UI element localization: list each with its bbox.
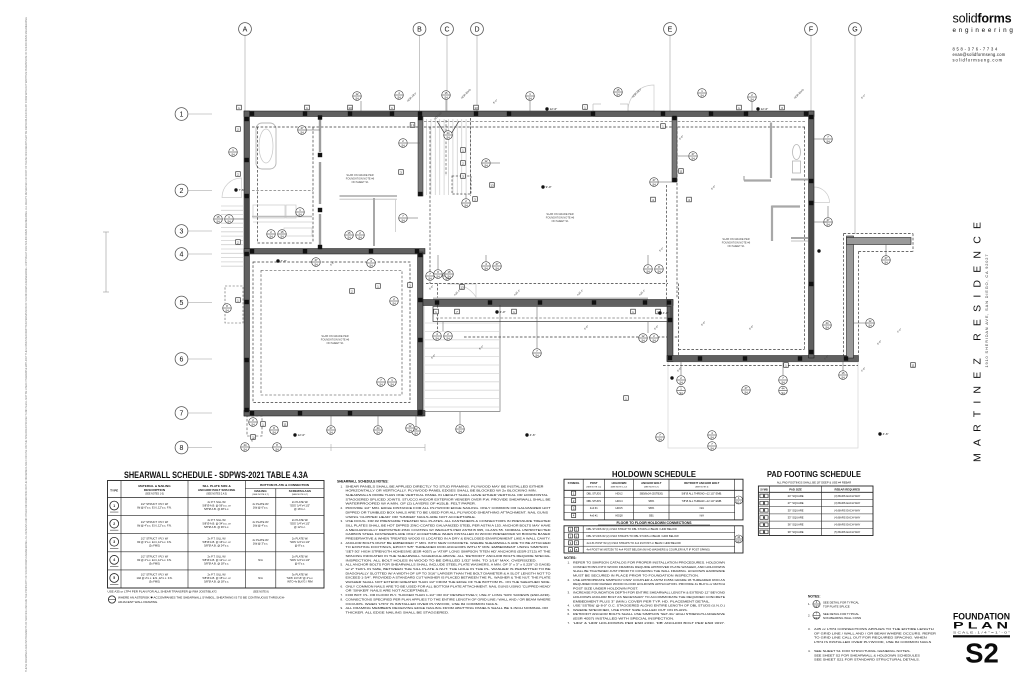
svg-text:S4: S4 [436, 274, 440, 278]
svg-text:47: 47 [315, 258, 318, 262]
svg-text:DBL STUDS: DBL STUDS [587, 491, 602, 495]
svg-text:SLAB ON GRADE PER: SLAB ON GRADE PER [321, 334, 348, 338]
svg-text:47: 47 [885, 256, 888, 260]
svg-text:D: D [474, 27, 479, 34]
svg-text:4: 4 [180, 252, 184, 259]
svg-text:SLAB ON GRADE PER: SLAB ON GRADE PER [346, 173, 373, 177]
svg-text:evan@solidformseng.com: evan@solidformseng.com [953, 52, 1006, 57]
svg-text:44: 44 [459, 425, 462, 429]
dashed inset above bottom-right wall [679, 349, 805, 351]
svg-text:S4: S4 [280, 234, 284, 238]
sofa outline left room [253, 205, 312, 236]
svg-text:11: 11 [283, 422, 286, 426]
svg-text:SYMB: SYMB [760, 487, 768, 491]
svg-text:2x PLATE W/: 2x PLATE W/ [253, 502, 269, 506]
svg-text:S4: S4 [641, 338, 645, 342]
svg-text:FOUNDATION NOTE #6: FOUNDATION NOTE #6 [546, 215, 575, 219]
svg-text:9'-6": 9'-6" [678, 134, 685, 141]
dashed stoop below lower-left wall [247, 416, 262, 436]
svg-text:30" SQUARE: 30" SQUARE [788, 508, 804, 512]
svg-text:solidforms: solidforms [953, 12, 1012, 26]
svg-text:6: 6 [180, 357, 184, 364]
svg-text:8'-0": 8'-0" [492, 98, 499, 105]
svg-text:THESE DRAWINGS ARE INSTRUMENTS: THESE DRAWINGS ARE INSTRUMENTS OF SERVIC… [24, 17, 28, 672]
svg-text:SYMBOL: SYMBOL [568, 481, 580, 485]
left entry door arc [222, 178, 242, 198]
svg-text:S4: S4 [658, 437, 662, 441]
svg-text:LTP4 IS INSTALLED OVER PLYWOOD: LTP4 IS INSTALLED OVER PLYWOOD, USE 8d C… [814, 640, 931, 644]
dashed vertical at patio right [678, 284, 680, 359]
svg-text:1: 1 [113, 504, 115, 508]
svg-text:7'-6": 7'-6" [239, 188, 245, 192]
svg-text:S4: S4 [652, 338, 656, 342]
svg-text:S4: S4 [392, 301, 396, 305]
dashed pair flanking interior wall at E [667, 127, 678, 299]
svg-text:9'-6": 9'-6" [676, 366, 683, 373]
svg-text:S4: S4 [435, 336, 439, 340]
svg-text:8'-0": 8'-0" [478, 344, 485, 351]
wall type square tags [236, 105, 916, 440]
svg-text:P3: P3 [763, 510, 765, 512]
wood deck area with board lines [424, 302, 500, 412]
svg-text:16d @ 3"o.c.: 16d @ 3"o.c. [253, 542, 269, 546]
svg-text:12: 12 [485, 159, 488, 163]
svg-text:3: 3 [113, 540, 115, 544]
svg-text:SHEARWALL SCHEDULE - SDPWS-202: SHEARWALL SCHEDULE - SDPWS-2021 TABLE 4.… [124, 470, 308, 480]
dimension dots with labels [234, 107, 888, 437]
svg-text:11: 11 [911, 363, 914, 367]
exterior wall at grid 4 [244, 249, 425, 255]
grid row bubble 6 [175, 353, 212, 366]
svg-text:ANCHOR BOLT SPACING: ANCHOR BOLT SPACING [198, 488, 236, 492]
bottom wall of right section (grid 6) [667, 356, 859, 362]
svg-text:2x P.T. SILL W/: 2x P.T. SILL W/ [208, 536, 226, 540]
shear panel segments on top wall [350, 111, 746, 117]
svg-text:5/8"Ø A.B. @ 12"o.c. or: 5/8"Ø A.B. @ 12"o.c. or [203, 558, 231, 562]
svg-text:4.: 4. [341, 541, 344, 545]
svg-text:DBL STUDS W/ (1) CS16 STRAP TO: DBL STUDS W/ (1) CS16 STRAP TO DBL STUDS… [587, 527, 678, 531]
svg-text:(SEE NOTE 6,7): (SEE NOTE 6,7) [292, 494, 308, 496]
exterior wall top (grid 1) [244, 111, 814, 117]
svg-text:1.: 1. [341, 484, 344, 488]
sheet title FOUNDATION PLAN [953, 612, 1010, 638]
svg-text:2x PLATE W/: 2x PLATE W/ [292, 554, 308, 558]
svg-text:S4: S4 [231, 152, 235, 156]
svg-text:47: 47 [496, 262, 499, 266]
dashed inset inside right wall [804, 127, 806, 350]
svg-text:S4: S4 [826, 139, 830, 143]
svg-text:(SEE NOTES 1-5): (SEE NOTES 1-5) [145, 493, 164, 495]
svg-text:15: 15 [281, 230, 284, 234]
entry door arc right wall [814, 187, 830, 203]
svg-text:(3) BARS EACH WAY: (3) BARS EACH WAY [834, 501, 860, 505]
svg-text:G: G [852, 27, 857, 34]
svg-text:SB1: SB1 [649, 514, 654, 518]
slab on grade note labels [346, 173, 375, 184]
svg-text:ON SHEET S1: ON SHEET S1 [351, 180, 369, 184]
deck door arc [448, 284, 477, 297]
svg-text:1/2" STRUCT I PLY W/: 1/2" STRUCT I PLY W/ [141, 572, 169, 576]
svg-text:8: 8 [180, 445, 184, 452]
dashed line just below top wall [424, 121, 806, 123]
dashed offsets around wing wall [844, 234, 914, 359]
svg-text:S4: S4 [710, 435, 714, 439]
stair header V callout [437, 121, 459, 139]
svg-text:(SEE NOTE 6,7): (SEE NOTE 6,7) [644, 486, 659, 488]
svg-text:9'-0": 9'-0" [860, 93, 867, 100]
svg-text:HDR Blk'G: HDR Blk'G [460, 88, 472, 100]
svg-text:44: 44 [737, 535, 740, 539]
door arc top wall near E [628, 85, 654, 111]
svg-text:9.: 9. [341, 606, 344, 610]
svg-text:1910 SHERIDAN AVE, SAN DIEGO,: 1910 SHERIDAN AVE, SAN DIEGO, CA 92027 [984, 255, 989, 368]
svg-text:A35 4': A35 4' [576, 288, 585, 297]
svg-text:4x4 POST W/ MST236 TO 4x4 POST: 4x4 POST W/ MST236 TO 4x4 POST BELOW (W/… [587, 548, 710, 552]
svg-text:N/A: N/A [258, 558, 263, 562]
svg-text:3: 3 [180, 229, 184, 236]
svg-text:9'-6": 9'-6" [700, 320, 707, 327]
svg-text:2.: 2. [568, 578, 571, 582]
svg-text:S4: S4 [397, 95, 401, 99]
svg-text:S C A L E : 1 / 4 " = 1 ' -: S C A L E : 1 / 4 " = 1 ' - 0 " [953, 631, 1010, 635]
svg-text:'SDS' 1/4"x4 1/2": 'SDS' 1/4"x4 1/2" [290, 558, 310, 562]
exterior wall left (grid A) [244, 111, 250, 416]
svg-text:NOTES:: NOTES: [564, 556, 576, 560]
svg-text:5/8"Ø A.B. @ 18"o.c.: 5/8"Ø A.B. @ 18"o.c. [204, 579, 229, 583]
shear panel segments on left wall [244, 197, 250, 410]
svg-text:INTO 4x BLK'G / RIM: INTO 4x BLK'G / RIM [287, 579, 313, 583]
svg-text:9'-0": 9'-0" [546, 185, 552, 189]
svg-text:8d @ 6"o.c. E.N.,12"o.c. F.N.: 8d @ 6"o.c. E.N.,12"o.c. F.N. [137, 505, 172, 509]
svg-text:5/8"Ø A.B. @ 48"o.c.: 5/8"Ø A.B. @ 48"o.c. [204, 507, 229, 511]
svg-text:12'-6": 12'-6" [550, 107, 558, 111]
svg-text:HDU5: HDU5 [615, 506, 623, 510]
svg-text:15: 15 [217, 215, 220, 219]
grid column bubble F [805, 23, 818, 111]
grid column bubble C [441, 23, 454, 111]
svg-text:27" SQUARE: 27" SQUARE [788, 501, 804, 505]
svg-text:HDQ8: HDQ8 [615, 514, 623, 518]
svg-text:P6: P6 [763, 532, 765, 534]
svg-text:47: 47 [745, 386, 748, 390]
dashed line below covered patio [464, 336, 679, 338]
svg-text:5/8"Ø A.B. @ 36"o.c.: 5/8"Ø A.B. @ 36"o.c. [204, 525, 229, 529]
svg-text:2x P.T. SILL W/: 2x P.T. SILL W/ [208, 500, 226, 504]
svg-text:(3x FMG): (3x FMG) [149, 579, 160, 583]
svg-text:9'-6": 9'-6" [583, 324, 590, 331]
svg-text:HOLDOWN: HOLDOWN [612, 481, 627, 485]
svg-text:2x PLATE W/: 2x PLATE W/ [292, 500, 308, 504]
svg-text:5/8"Ø A.B. @ 34"o.c. or: 5/8"Ø A.B. @ 34"o.c. or [203, 522, 231, 526]
svg-text:15: 15 [448, 270, 451, 274]
svg-text:47: 47 [653, 178, 656, 182]
holdown schedule table [564, 479, 743, 520]
svg-text:REBAR REQUIRED: REBAR REQUIRED [835, 487, 861, 491]
svg-text:(4) BARS EACH WAY: (4) BARS EACH WAY [834, 523, 860, 527]
svg-text:S4: S4 [379, 382, 383, 386]
svg-text:2.: 2. [341, 506, 344, 510]
svg-text:'SDS' 1/4"x4 1/2": 'SDS' 1/4"x4 1/2" [290, 540, 310, 544]
stair right edge dashed [470, 118, 472, 196]
svg-text:13: 13 [490, 183, 494, 187]
svg-text:N/A: N/A [700, 506, 705, 510]
grid row bubble 7 [175, 407, 212, 420]
svg-text:S4: S4 [868, 323, 872, 327]
svg-text:5/8"Ø ALL THREAD +12 1/2" EMB.: 5/8"Ø ALL THREAD +12 1/2" EMB. [682, 491, 723, 495]
svg-text:(SEE NOTE 6,7): (SEE NOTE 6,7) [252, 494, 268, 496]
svg-text:47: 47 [827, 218, 830, 222]
svg-text:9'-6": 9'-6" [430, 353, 437, 360]
svg-text:S4: S4 [825, 325, 829, 329]
svg-text:S4: S4 [616, 92, 620, 96]
svg-text:ON SHEET S1: ON SHEET S1 [551, 219, 569, 223]
dashed footing line inside left wall upper [257, 127, 259, 243]
svg-text:16d @ 4"o.c.: 16d @ 4"o.c. [253, 523, 269, 527]
grid row bubble 2 [175, 184, 212, 197]
svg-text:S4: S4 [347, 235, 351, 239]
svg-text:DET: DET [814, 616, 820, 620]
svg-text:(5) BARS EACH WAY: (5) BARS EACH WAY [834, 530, 860, 534]
dashed footing line inside top wall [252, 126, 805, 128]
svg-text:'SDS' 1/4"x4 1/2": 'SDS' 1/4"x4 1/2" [290, 522, 310, 526]
faint patio slab outline lower right [668, 362, 858, 448]
dashed inset lower-left room [253, 262, 410, 403]
svg-text:S4: S4 [300, 130, 304, 134]
svg-text:1.: 1. [808, 602, 811, 606]
dashed inset right side of upper-left room [312, 127, 314, 243]
svg-text:2.: 2. [808, 614, 811, 618]
svg-text:B: B [417, 27, 422, 34]
counter line left room [252, 216, 312, 218]
svg-text:'SDS' 1/4"x6" @ 4"o.c.: 'SDS' 1/4"x6" @ 4"o.c. [287, 576, 314, 580]
svg-text:2x PLATE W/: 2x PLATE W/ [292, 536, 308, 540]
lower right closet walls [772, 206, 808, 242]
svg-text:4'-0": 4'-0" [663, 311, 669, 315]
svg-text:NAILING: NAILING [254, 489, 267, 493]
svg-text:2x PLATE W/: 2x PLATE W/ [253, 538, 269, 542]
porch wing wall vertical (grid G) [847, 236, 854, 358]
svg-text:9'-6": 9'-6" [653, 324, 660, 331]
svg-text:(3) BARS EACH WAY: (3) BARS EACH WAY [834, 494, 860, 498]
svg-text:S4: S4 [528, 96, 532, 100]
svg-text:P5: P5 [763, 525, 765, 527]
svg-text:S4: S4 [781, 380, 785, 384]
floor to floor holdown connections table [564, 521, 743, 553]
grid column bubble A [239, 23, 252, 111]
svg-text:S4: S4 [446, 135, 450, 139]
svg-text:'SDS' 1/4"x4 1/2": 'SDS' 1/4"x4 1/2" [290, 504, 310, 508]
svg-text:7: 7 [180, 411, 184, 418]
svg-text:4'-0": 4'-0" [896, 327, 903, 334]
svg-text:4'-0": 4'-0" [500, 310, 506, 314]
svg-text:39" SQUARE: 39" SQUARE [788, 530, 804, 534]
svg-text:TYPE: TYPE [110, 489, 118, 493]
svg-text:12'-0": 12'-0" [298, 433, 306, 437]
svg-text:THICKER. ALL EDGE NAILING SHA: THICKER. ALL EDGE NAILING SHALL BE STAGG… [346, 610, 450, 614]
grid column bubble B [413, 23, 426, 111]
svg-text:S4: S4 [408, 428, 412, 432]
svg-text:2x P.T. SILL W/: 2x P.T. SILL W/ [208, 554, 226, 558]
svg-text:engineering: engineering [953, 27, 1016, 34]
svg-text:SB%: SB% [648, 506, 654, 510]
svg-text:@ 12"o.c.: @ 12"o.c. [294, 525, 306, 529]
svg-text:13: 13 [348, 106, 352, 110]
svg-text:12'-6": 12'-6" [761, 107, 769, 111]
svg-text:(SEE NOTES 2,4,5): (SEE NOTES 2,4,5) [206, 493, 227, 495]
svg-text:8.: 8. [341, 597, 344, 601]
svg-text:S4: S4 [329, 430, 333, 434]
grid row bubble 3 [175, 225, 212, 238]
inner dashed inset lower-left room [261, 271, 402, 396]
svg-text:ON SHEET S1: ON SHEET S1 [326, 341, 344, 345]
grid column bubble E [664, 23, 677, 111]
shear panel on right wall [809, 203, 815, 284]
svg-text:HDU4: HDU4 [615, 499, 623, 503]
svg-text:ALL PAD FOOTINGS SHALL BE 18": ALL PAD FOOTINGS SHALL BE 18" DEEP & USE… [777, 480, 851, 484]
svg-text:E: E [668, 27, 673, 34]
svg-text:(2x FMG): (2x FMG) [149, 543, 160, 547]
stair strap squares [461, 148, 466, 179]
svg-text:5: 5 [113, 576, 115, 580]
svg-text:44: 44 [244, 443, 247, 447]
svg-text:7/8"Ø ALL THREAD +12 1/2" EMB.: 7/8"Ø ALL THREAD +12 1/2" EMB. [682, 499, 723, 503]
svg-text:1: 1 [180, 112, 184, 119]
svg-text:'HD2' & 'HD9' HOLDOWNS PER ESR: 'HD2' & 'HD9' HOLDOWNS PER ESR 2330. 'DB… [573, 621, 725, 625]
svg-text:HOLDOWN SCHEDULE: HOLDOWN SCHEDULE [612, 469, 696, 479]
interior shear wall at grid E upper [672, 117, 677, 182]
svg-text:DESCRIPTION: DESCRIPTION [144, 488, 166, 492]
svg-text:S4: S4 [314, 262, 318, 266]
bathtub upper-left room [256, 123, 276, 169]
svg-text:S4: S4 [484, 266, 488, 270]
svg-text:5/8"Ø A.B. @ 16"o.c. or: 5/8"Ø A.B. @ 16"o.c. or [203, 540, 231, 544]
svg-text:solidformseng.com: solidformseng.com [953, 57, 1004, 62]
svg-text:S4: S4 [298, 212, 302, 216]
svg-text:5/8"Ø A.B. @ 15"o.c. or: 5/8"Ø A.B. @ 15"o.c. or [203, 576, 231, 580]
svg-text:(4) BARS EACH WAY: (4) BARS EACH WAY [834, 508, 860, 512]
svg-text:P1: P1 [763, 496, 765, 498]
svg-text:4x6 #1: 4x6 #1 [590, 514, 598, 518]
svg-text:A35 4': A35 4' [638, 288, 647, 297]
kitchen island walls [340, 196, 398, 246]
svg-text:16d @ 6"o.c.: 16d @ 6"o.c. [253, 505, 269, 509]
svg-text:@ 8"o.c.: @ 8"o.c. [295, 543, 306, 547]
svg-text:TOP PLATE SPLICE: TOP PLATE SPLICE [823, 605, 850, 609]
dashed inset bottom of upper-left room [258, 242, 314, 244]
svg-text:4: 4 [113, 558, 115, 562]
svg-text:2x PLATE W/: 2x PLATE W/ [253, 520, 269, 524]
grid column bubble G [849, 23, 862, 234]
svg-text:S4: S4 [841, 375, 845, 379]
svg-text:S4: S4 [744, 390, 748, 394]
svg-text:F: F [809, 27, 813, 34]
svg-text:(SEE NOTE 1,2,7): (SEE NOTE 1,2,7) [611, 486, 628, 488]
svg-text:5.: 5. [341, 563, 344, 567]
svg-text:SEE SHEET S21 FOR STANDARD STR: SEE SHEET S21 FOR STANDARD STRUCTURAL DE… [814, 658, 920, 662]
svg-text:DBL STUDS W/ (2) CS16 STRAPS T: DBL STUDS W/ (2) CS16 STRAPS TO DBL STUD… [587, 534, 680, 538]
svg-text:N/A: N/A [258, 576, 263, 580]
shearwall and detail circle symbols [214, 88, 891, 452]
svg-text:S4: S4 [447, 274, 451, 278]
svg-text:P2: P2 [763, 503, 765, 505]
svg-text:S4: S4 [225, 308, 229, 312]
solidforms logo [953, 12, 1016, 34]
svg-text:S4: S4 [652, 182, 656, 186]
svg-text:36" SQUARE: 36" SQUARE [788, 523, 804, 527]
svg-text:SCREWS/LAGS: SCREWS/LAGS [289, 489, 311, 493]
svg-text:13: 13 [411, 123, 415, 127]
svg-text:3x PLATE W/: 3x PLATE W/ [292, 572, 308, 576]
exterior wall bottom of lower-left room (grid 7) [244, 411, 425, 417]
svg-text:9'-6": 9'-6" [428, 284, 435, 291]
svg-text:S4: S4 [446, 336, 450, 340]
svg-text:4.: 4. [808, 649, 811, 653]
svg-text:FOUNDATION NOTE #6: FOUNDATION NOTE #6 [722, 240, 751, 244]
svg-text:BOTTOM PLATE & CONNECTION: BOTTOM PLATE & CONNECTION [260, 483, 310, 487]
dashed offset below bottom-right wall [663, 365, 858, 367]
svg-text:C: C [444, 27, 449, 34]
svg-text:15: 15 [445, 91, 448, 95]
svg-text:7.: 7. [568, 621, 571, 625]
svg-text:(3x FMG): (3x FMG) [149, 561, 160, 565]
svg-text:SHEARWALL SCHEDULE NOTES:: SHEARWALL SCHEDULE NOTES: [337, 480, 388, 484]
svg-text:1.: 1. [568, 561, 571, 565]
svg-text:FOUNDATION NOTE #6: FOUNDATION NOTE #6 [321, 337, 350, 341]
dimension line below lower-left room [244, 444, 425, 451]
rotated dimension labels [250, 87, 903, 442]
dashed vertical at deck left [437, 284, 439, 337]
shearwall schedule table [108, 481, 325, 589]
svg-text:12: 12 [356, 92, 359, 96]
grid row bubble 1 [175, 108, 212, 121]
svg-text:2x PLATE W/: 2x PLATE W/ [292, 518, 308, 522]
svg-text:S4: S4 [369, 263, 373, 267]
svg-text:33" SQUARE: 33" SQUARE [788, 516, 804, 520]
svg-text:S4: S4 [679, 391, 683, 395]
great room bottom wall (grid 5) [423, 298, 673, 306]
svg-text:ON SHEET S1: ON SHEET S1 [727, 244, 745, 248]
svg-text:11: 11 [679, 169, 682, 173]
svg-text:S4: S4 [275, 447, 279, 451]
svg-text:S4: S4 [535, 353, 539, 357]
svg-text:PAD SIZE: PAD SIZE [789, 487, 802, 491]
svg-text:3.: 3. [341, 519, 344, 523]
shearwall schedule notes block [337, 480, 551, 615]
interior stair treads near grid C [427, 119, 471, 195]
svg-text:DET: DET [814, 604, 820, 608]
general notes block bottom right [808, 595, 936, 662]
svg-text:S4: S4 [781, 391, 785, 395]
grid row bubble 5 [175, 296, 212, 309]
svg-text:3.: 3. [568, 591, 571, 595]
svg-text:S4: S4 [750, 97, 754, 101]
toilet upper right bath [793, 145, 801, 174]
svg-text:FLOOR TO FLOOR HOLDOWN CONNECT: FLOOR TO FLOOR HOLDOWN CONNECTIONS [616, 521, 692, 525]
svg-text:12: 12 [415, 427, 418, 431]
svg-text:5/8"Ø A.B. @ 18"o.c.: 5/8"Ø A.B. @ 18"o.c. [204, 561, 229, 565]
svg-text:NON-BEARING WALL CONN: NON-BEARING WALL CONN [823, 616, 861, 620]
svg-text:S4: S4 [884, 260, 888, 264]
svg-text:NOTES:: NOTES: [808, 595, 820, 599]
svg-text:858-376-7734: 858-376-7734 [953, 47, 1000, 52]
svg-text:13: 13 [474, 106, 478, 110]
svg-text:ADJACENT WALL FRAMING.: ADJACENT WALL FRAMING. [118, 600, 158, 604]
svg-text:S4: S4 [269, 234, 273, 238]
svg-text:S4: S4 [710, 446, 714, 450]
left dashed stoop outline [225, 286, 243, 323]
grid column bubble D [471, 23, 484, 111]
svg-text:S4: S4 [414, 431, 418, 435]
